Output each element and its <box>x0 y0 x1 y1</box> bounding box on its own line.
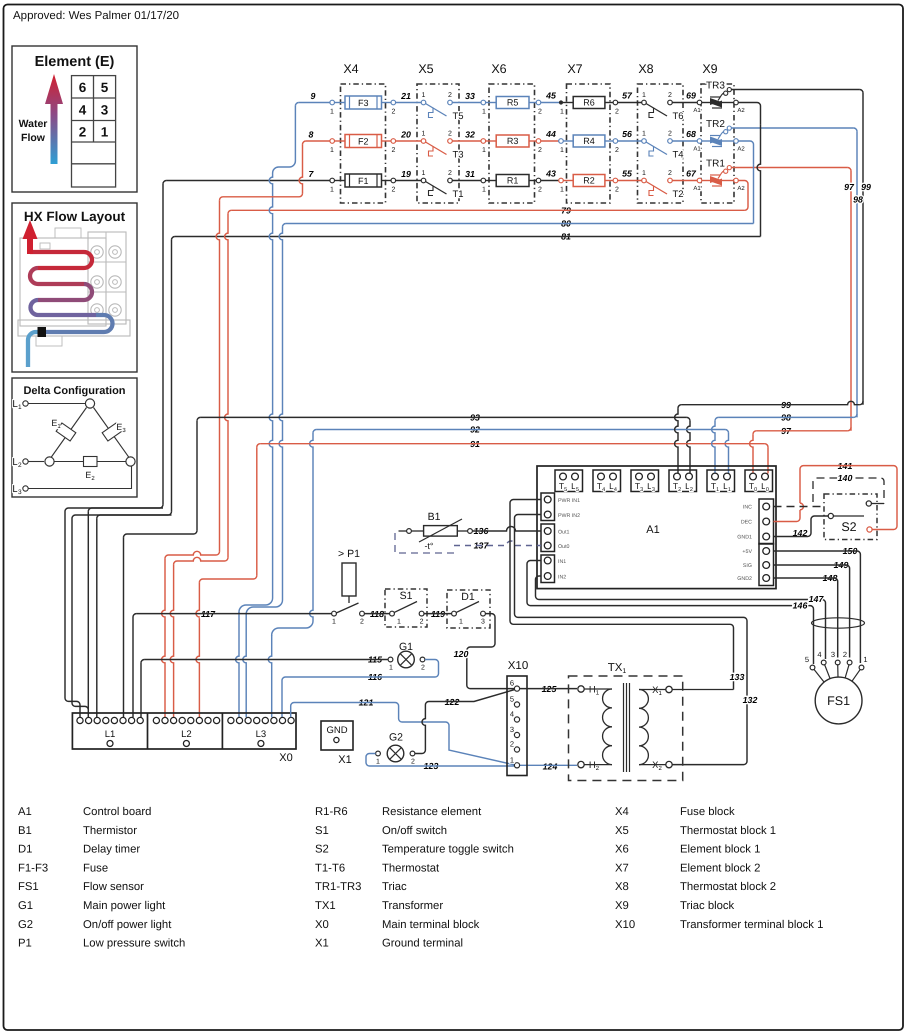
svg-text:X4: X4 <box>343 62 358 76</box>
svg-text:2: 2 <box>510 740 514 749</box>
svg-text:Transformer: Transformer <box>382 900 443 912</box>
svg-text:T1: T1 <box>453 189 464 200</box>
wire 97 drop to A1 T0 <box>750 434 753 473</box>
svg-text:S1: S1 <box>400 590 413 602</box>
svg-text:Transformer terminal block 1: Transformer terminal block 1 <box>680 919 823 931</box>
control board A1 <box>537 466 776 589</box>
svg-text:T4: T4 <box>673 150 684 161</box>
svg-text:L3: L3 <box>256 729 267 740</box>
svg-text:67: 67 <box>686 169 697 179</box>
Delta Configuration box <box>12 378 137 497</box>
resistance element R4 <box>573 135 605 147</box>
svg-text:G1: G1 <box>18 900 33 912</box>
svg-text:B1: B1 <box>428 511 441 523</box>
svg-text:SIG: SIG <box>743 563 752 569</box>
svg-text:1: 1 <box>459 619 463 626</box>
svg-text:+5V: +5V <box>742 549 752 555</box>
svg-text:56: 56 <box>622 129 632 139</box>
svg-text:43: 43 <box>545 169 556 179</box>
svg-text:T3: T3 <box>453 150 464 161</box>
wire 132 PWR IN2 to X2 <box>515 515 748 765</box>
FS1 pin 4 <box>821 660 826 665</box>
svg-text:X9: X9 <box>702 62 717 76</box>
A1 terminal pair T1 L1 <box>707 470 735 492</box>
svg-text:2: 2 <box>79 125 87 140</box>
svg-text:A2: A2 <box>737 107 745 114</box>
element R4 <box>559 139 564 144</box>
svg-text:TR1: TR1 <box>706 159 725 170</box>
svg-text:4: 4 <box>79 103 87 118</box>
delta node right <box>126 457 135 466</box>
svg-text:X2: X2 <box>652 760 662 772</box>
wire 133 PWR IN1 to X1 <box>510 500 734 690</box>
svg-text:120: 120 <box>454 649 469 659</box>
svg-text:2: 2 <box>411 759 415 766</box>
svg-text:A1: A1 <box>646 524 659 536</box>
svg-text:T5: T5 <box>453 111 464 122</box>
svg-text:X8: X8 <box>638 62 653 76</box>
svg-text:S2: S2 <box>315 844 329 856</box>
svg-text:4: 4 <box>510 710 514 719</box>
wire 99 vertical right edge <box>862 93 864 405</box>
svg-text:1: 1 <box>560 109 564 116</box>
svg-text:GND2: GND2 <box>737 576 752 582</box>
svg-text:GND1: GND1 <box>737 535 752 541</box>
svg-text:Fuse block: Fuse block <box>680 806 735 818</box>
on/off switch S1 <box>385 589 427 627</box>
A1 terminal pair T0 L0 <box>745 470 773 492</box>
svg-text:X7: X7 <box>615 862 629 874</box>
svg-text:IN1: IN1 <box>558 559 566 565</box>
svg-text:2: 2 <box>448 131 452 138</box>
wire 9 <box>299 102 332 104</box>
A1 terminal pair T4 L4 <box>593 470 621 492</box>
svg-text:A1: A1 <box>693 146 701 153</box>
svg-text:Low pressure switch: Low pressure switch <box>83 938 185 950</box>
far left wires to L1 <box>65 508 163 717</box>
element E1 <box>56 423 76 441</box>
svg-text:2: 2 <box>392 109 396 116</box>
svg-text:Triac block: Triac block <box>680 900 735 912</box>
svg-text:3: 3 <box>481 619 485 626</box>
svg-text:R3: R3 <box>507 136 519 146</box>
FS1 pin 1 <box>859 665 864 670</box>
heat exchanger gray body <box>20 238 106 326</box>
svg-text:T1-T6: T1-T6 <box>315 862 345 874</box>
svg-text:T6: T6 <box>673 111 684 122</box>
S2 lower contact <box>867 527 872 532</box>
delta node top <box>85 399 94 408</box>
Element (E) legend box <box>12 46 137 192</box>
wire 146 IN1 to FS1 pin5 <box>527 561 814 665</box>
svg-text:5: 5 <box>510 695 514 704</box>
svg-text:IN2: IN2 <box>558 575 566 581</box>
svg-text:2: 2 <box>668 170 672 177</box>
svg-text:1: 1 <box>330 109 334 116</box>
svg-text:1: 1 <box>482 187 486 194</box>
S2 common pin and lever <box>828 513 833 518</box>
svg-text:Element block 1: Element block 1 <box>680 844 760 856</box>
wire 97 vertical <box>850 171 852 431</box>
wire 79 descent to L2 <box>225 214 228 558</box>
svg-text:Out0: Out0 <box>558 544 570 550</box>
block X8 thermostat block 2 border <box>638 84 684 203</box>
block X5 thermostat block 1 border <box>417 84 459 203</box>
S2 upper contact <box>866 501 871 506</box>
svg-text:TR2: TR2 <box>706 119 725 130</box>
svg-text:TX1: TX1 <box>608 662 627 675</box>
wire 9 descent to L3 <box>273 106 296 174</box>
bus 93 drop to A1 L2 <box>687 417 690 420</box>
bus 93 descent to L1 <box>196 421 198 531</box>
svg-text:1: 1 <box>863 655 867 664</box>
svg-text:19: 19 <box>401 169 411 179</box>
svg-text:X6: X6 <box>615 844 629 856</box>
wire from TR1 A2 down <box>738 181 748 211</box>
svg-text:F1: F1 <box>358 176 369 186</box>
svg-text:FS1: FS1 <box>18 881 39 893</box>
svg-text:Approved: Wes Palmer 01/17/20: Approved: Wes Palmer 01/17/20 <box>13 10 179 22</box>
svg-text:B1: B1 <box>18 825 32 837</box>
svg-text:R1-R6: R1-R6 <box>315 806 348 818</box>
svg-text:1: 1 <box>397 619 401 626</box>
svg-text:Flow: Flow <box>21 132 46 144</box>
bus 92 drop to A1 L1 <box>725 430 728 433</box>
element R2 <box>559 178 564 183</box>
wire 98 drop to A1 T1 <box>712 421 715 474</box>
wire 99 gate feed from TR3 <box>731 89 859 91</box>
TX1 primary coil <box>584 688 612 690</box>
svg-text:124: 124 <box>543 762 558 772</box>
svg-text:1: 1 <box>642 92 646 99</box>
svg-text:2: 2 <box>668 131 672 138</box>
svg-text:TX1: TX1 <box>315 900 336 912</box>
svg-text:P1: P1 <box>18 938 32 950</box>
svg-text:1: 1 <box>330 147 334 154</box>
wire 8 <box>306 140 332 142</box>
svg-text:3: 3 <box>510 725 514 734</box>
svg-text:S1: S1 <box>315 825 329 837</box>
svg-text:45: 45 <box>545 91 556 101</box>
svg-text:57: 57 <box>622 91 633 101</box>
flow sensor FS1 <box>815 677 862 724</box>
INC dashed wire to S2 <box>774 506 825 508</box>
svg-text:2: 2 <box>538 147 542 154</box>
svg-text:X4: X4 <box>615 806 629 818</box>
thermostat T5 <box>421 100 426 105</box>
svg-text:1: 1 <box>642 131 646 138</box>
svg-text:132: 132 <box>743 695 758 705</box>
svg-text:G2: G2 <box>389 732 403 744</box>
svg-text:44: 44 <box>545 129 556 139</box>
TX1 secondary coil <box>639 689 666 691</box>
wire 81 descent to L1 <box>171 240 173 512</box>
svg-text:1: 1 <box>332 619 336 626</box>
svg-text:1: 1 <box>389 665 393 672</box>
HX inlet valve square <box>38 328 46 337</box>
wire 97 gate feed from TR1 <box>731 167 847 169</box>
svg-text:Thermostat block 1: Thermostat block 1 <box>680 825 776 837</box>
A1 right terminal groups <box>759 499 774 544</box>
wire 136 <box>468 529 473 534</box>
block X7 element block 2 border <box>567 84 611 203</box>
svg-text:1: 1 <box>101 125 109 140</box>
block X4 fuse block border <box>341 84 386 203</box>
resistance element R3 <box>496 135 529 147</box>
svg-text:S2: S2 <box>841 520 856 534</box>
svg-text:R1: R1 <box>507 176 519 186</box>
fuse F1 <box>335 180 346 182</box>
svg-text:TR1-TR3: TR1-TR3 <box>315 881 361 893</box>
svg-text:TR3: TR3 <box>706 81 725 92</box>
wire 80 descent to L3 <box>279 227 282 600</box>
svg-text:Temperature toggle switch: Temperature toggle switch <box>382 844 514 856</box>
svg-text:2: 2 <box>392 187 396 194</box>
svg-text:Water: Water <box>19 118 48 130</box>
svg-text:4: 4 <box>817 650 821 659</box>
main terminal block X0 <box>72 713 296 749</box>
wire 133 X1 stub <box>672 689 733 691</box>
svg-text:INC: INC <box>743 505 752 511</box>
triac TR3 <box>697 100 702 105</box>
svg-text:2: 2 <box>420 619 424 626</box>
FS1 pin 5 <box>810 665 815 670</box>
svg-text:5: 5 <box>805 655 809 664</box>
svg-text:H2: H2 <box>589 760 600 772</box>
svg-text:X7: X7 <box>567 62 582 76</box>
wire 8 descent to L2 <box>299 144 302 193</box>
wire 7 descent to L1 <box>162 184 164 505</box>
svg-text:5: 5 <box>101 80 109 95</box>
svg-text:Thermistor: Thermistor <box>83 825 137 837</box>
X0 terminal circle L1 <box>77 717 83 723</box>
bus 91 descent to L2 <box>256 447 258 575</box>
svg-text:6: 6 <box>510 679 514 688</box>
svg-text:X1: X1 <box>315 938 329 950</box>
resistance element R5 <box>496 97 529 109</box>
svg-text:2: 2 <box>615 109 619 116</box>
svg-text:X9: X9 <box>615 900 629 912</box>
svg-text:E1: E1 <box>51 418 61 430</box>
svg-text:HX Flow Layout: HX Flow Layout <box>24 209 126 224</box>
svg-text:F2: F2 <box>358 136 369 146</box>
svg-text:1: 1 <box>376 759 380 766</box>
FS1 cable sleeve ellipse <box>812 618 865 628</box>
element E3 <box>102 423 122 441</box>
svg-text:L3: L3 <box>12 484 22 496</box>
svg-text:Triac: Triac <box>382 881 407 893</box>
svg-text:R5: R5 <box>507 98 519 108</box>
svg-text:21: 21 <box>400 91 411 101</box>
svg-text:Out1: Out1 <box>558 530 570 536</box>
svg-text:X0: X0 <box>315 919 329 931</box>
wire 98 vertical <box>856 131 858 417</box>
element R5 pins <box>481 100 486 105</box>
svg-text:1: 1 <box>560 187 564 194</box>
svg-text:Element (E): Element (E) <box>35 54 115 70</box>
thermostat T3 <box>421 139 426 144</box>
A1 terminal pair T2 L2 <box>669 470 697 492</box>
wire from TR2 A2 down <box>738 141 753 164</box>
svg-text:A2: A2 <box>737 185 745 192</box>
svg-text:R2: R2 <box>583 176 595 186</box>
svg-text:R6: R6 <box>583 98 595 108</box>
svg-text:A1: A1 <box>18 806 32 818</box>
svg-text:3: 3 <box>101 103 109 118</box>
resistance element R6 <box>573 97 605 109</box>
svg-text:Flow sensor: Flow sensor <box>83 881 144 893</box>
svg-text:2: 2 <box>448 170 452 177</box>
svg-text:GND: GND <box>326 725 347 736</box>
svg-text:6: 6 <box>79 80 87 95</box>
svg-text:1: 1 <box>560 147 564 154</box>
svg-text:A2: A2 <box>737 146 745 153</box>
element R3 pins <box>481 139 486 144</box>
wire 7 <box>166 180 332 182</box>
svg-text:D1: D1 <box>461 591 475 603</box>
svg-text:9: 9 <box>311 91 316 101</box>
svg-text:-t°: -t° <box>424 541 433 551</box>
svg-text:T2: T2 <box>673 189 684 200</box>
svg-text:PWR IN1: PWR IN1 <box>558 498 580 504</box>
svg-text:A1: A1 <box>693 185 701 192</box>
svg-text:Thermostat block 2: Thermostat block 2 <box>680 881 776 893</box>
svg-text:146: 146 <box>793 601 808 611</box>
svg-text:G2: G2 <box>18 919 33 931</box>
wire 98 gate feed from TR2 <box>731 127 853 129</box>
svg-text:Ground terminal: Ground terminal <box>382 938 463 950</box>
wire from TR3 A2 down <box>738 103 760 125</box>
wire 120 D1 to X10 pin6 <box>467 614 514 689</box>
svg-text:1: 1 <box>642 170 646 177</box>
FS1 pin 2 <box>847 660 852 665</box>
FS1 pin 3 <box>835 660 840 665</box>
svg-text:F3: F3 <box>358 98 369 108</box>
svg-text:Main power light: Main power light <box>83 900 166 912</box>
svg-text:1: 1 <box>422 92 426 99</box>
serpentine flow pipe <box>30 252 92 268</box>
svg-text:8: 8 <box>309 130 314 140</box>
svg-text:On/off power light: On/off power light <box>83 919 172 931</box>
svg-text:DEC: DEC <box>741 520 752 526</box>
svg-text:A1: A1 <box>693 107 701 114</box>
svg-text:Thermostat: Thermostat <box>382 862 440 874</box>
svg-text:140: 140 <box>838 473 853 483</box>
delay timer D1 <box>447 590 490 628</box>
svg-text:D1: D1 <box>18 844 32 856</box>
element terminal table <box>72 76 116 187</box>
svg-text:1: 1 <box>330 187 334 194</box>
svg-text:2: 2 <box>615 147 619 154</box>
resistance element R1 <box>496 175 529 187</box>
svg-text:2: 2 <box>360 619 364 626</box>
wire 99 drop to A1 T2 <box>675 408 678 473</box>
thermostat T2 <box>642 178 647 183</box>
svg-text:X10: X10 <box>615 919 635 931</box>
bus 92 descent to L3 <box>310 433 313 621</box>
TX1 core <box>623 683 625 772</box>
svg-text:2: 2 <box>448 92 452 99</box>
svg-text:X1: X1 <box>652 685 662 697</box>
svg-text:98: 98 <box>853 195 863 205</box>
svg-text:1: 1 <box>482 109 486 116</box>
HX Flow Layout box <box>12 203 137 372</box>
svg-text:Resistance element: Resistance element <box>382 806 482 818</box>
svg-text:Delay timer: Delay timer <box>83 844 140 856</box>
delta node left <box>45 457 54 466</box>
svg-text:147: 147 <box>809 594 825 604</box>
svg-text:H1: H1 <box>589 685 600 697</box>
svg-text:Main terminal block: Main terminal block <box>382 919 480 931</box>
bus 91 drop to A1 L0 <box>765 444 768 447</box>
triac TR1 <box>697 178 702 183</box>
A1 terminal pair T3 L3 <box>631 470 659 492</box>
wire 140 dashed box S2 outer <box>813 478 884 504</box>
svg-text:Element block 2: Element block 2 <box>680 862 760 874</box>
svg-text:2: 2 <box>392 147 396 154</box>
svg-text:E2: E2 <box>85 470 95 482</box>
svg-text:2: 2 <box>538 187 542 194</box>
svg-text:99: 99 <box>861 182 871 192</box>
svg-text:68: 68 <box>686 129 696 139</box>
svg-text:L2: L2 <box>181 729 192 740</box>
ground terminal X1 <box>321 721 353 750</box>
A1 terminal pair T5 L5 <box>555 470 583 492</box>
thermostat T4 <box>642 139 647 144</box>
svg-text:69: 69 <box>686 91 696 101</box>
svg-text:> P1: > P1 <box>338 548 360 560</box>
svg-text:3: 3 <box>831 650 835 659</box>
svg-text:7: 7 <box>309 169 315 179</box>
svg-text:2: 2 <box>843 650 847 659</box>
svg-text:F1-F3: F1-F3 <box>18 862 48 874</box>
svg-text:X10: X10 <box>508 660 528 672</box>
svg-text:L1: L1 <box>105 729 116 740</box>
svg-text:1: 1 <box>422 170 426 177</box>
svg-text:PWR IN2: PWR IN2 <box>558 513 580 519</box>
resistance element R2 <box>573 175 605 187</box>
element R6 <box>559 100 563 104</box>
svg-text:2: 2 <box>421 665 425 672</box>
svg-text:X0: X0 <box>279 752 292 764</box>
svg-text:2: 2 <box>615 187 619 194</box>
svg-text:L2: L2 <box>12 457 22 469</box>
svg-text:Fuse: Fuse <box>83 862 108 874</box>
svg-text:1: 1 <box>422 131 426 138</box>
fuse F3 <box>335 102 346 104</box>
svg-text:133: 133 <box>730 672 745 682</box>
svg-text:X5: X5 <box>615 825 629 837</box>
A1 left terminal group <box>541 555 555 583</box>
delta triangle <box>51 408 87 458</box>
thermostat T6 <box>642 100 647 105</box>
HX outlet red arrow <box>23 220 38 254</box>
svg-text:32: 32 <box>465 130 475 140</box>
wire 147 IN2 to FS1 pin4 <box>536 576 826 659</box>
svg-text:R4: R4 <box>583 136 595 146</box>
A1 left terminal group <box>541 493 555 521</box>
svg-text:On/off switch: On/off switch <box>382 825 447 837</box>
element R1 pins <box>481 178 486 183</box>
svg-text:X8: X8 <box>615 881 629 893</box>
thermostat T1 <box>421 178 426 183</box>
svg-text:33: 33 <box>465 91 475 101</box>
B1 dashed enclosure <box>395 533 455 553</box>
svg-text:Control board: Control board <box>83 806 151 818</box>
block X9 triac block border <box>701 84 734 203</box>
svg-text:2: 2 <box>668 92 672 99</box>
svg-text:55: 55 <box>622 169 632 179</box>
